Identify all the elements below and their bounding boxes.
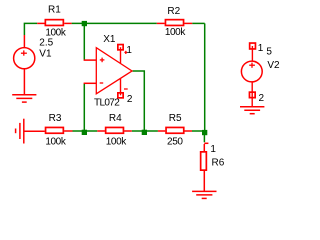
svg-text:R6: R6 — [212, 157, 225, 168]
svg-text:2: 2 — [259, 93, 265, 104]
svg-text:2.5: 2.5 — [39, 37, 53, 48]
svg-text:R2: R2 — [167, 6, 180, 17]
svg-text:1: 1 — [258, 43, 264, 54]
svg-text:R1: R1 — [48, 5, 61, 16]
svg-text:100k: 100k — [45, 136, 66, 147]
svg-text:R5: R5 — [169, 113, 182, 124]
svg-text:250: 250 — [167, 136, 183, 147]
svg-text:1: 1 — [210, 144, 216, 155]
svg-text:100k: 100k — [165, 27, 186, 38]
svg-text:V1: V1 — [39, 49, 52, 60]
svg-text:X1: X1 — [103, 34, 116, 45]
svg-text:100k: 100k — [106, 136, 127, 147]
svg-text:2: 2 — [127, 94, 133, 105]
svg-text:R3: R3 — [49, 113, 62, 124]
svg-text:R4: R4 — [109, 113, 122, 124]
svg-text:5: 5 — [266, 46, 272, 57]
svg-text:TL072: TL072 — [94, 97, 120, 108]
svg-text:1: 1 — [126, 45, 132, 56]
svg-text:V2: V2 — [267, 60, 280, 71]
